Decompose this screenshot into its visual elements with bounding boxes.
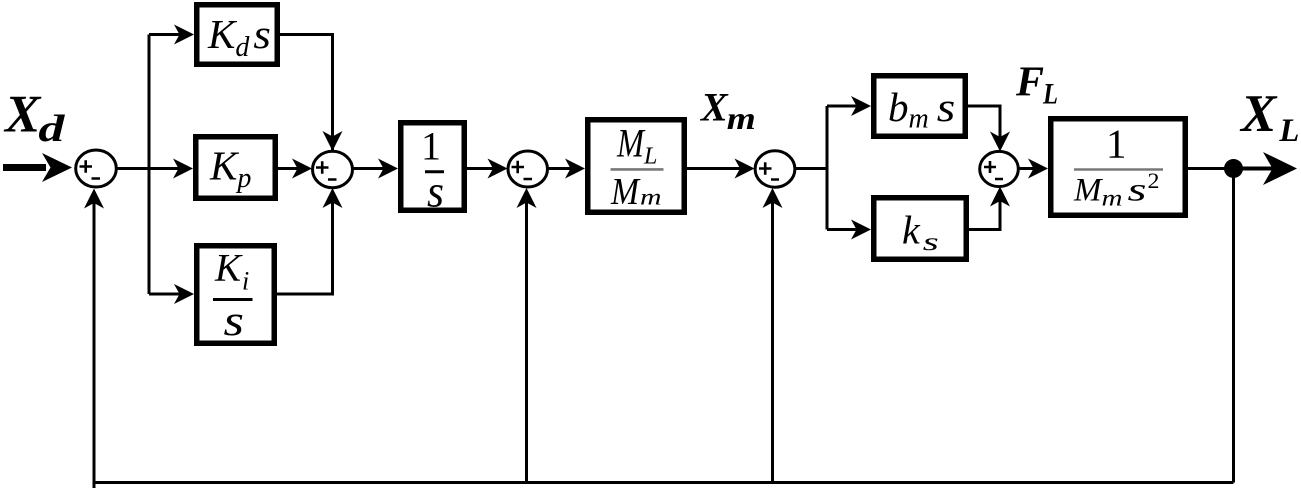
svg-text:m: m [640, 185, 662, 210]
arrowhead into S2 left [292, 159, 312, 179]
block Kd s [197, 5, 278, 65]
svg-text:s: s [427, 167, 444, 217]
wire feedback bottom horizontal [94, 481, 1234, 484]
wire ML/Mm output to S4 (node Xm) [687, 167, 741, 170]
wire input to S1 (thick input shaft) [3, 164, 46, 171]
svg-text:s: s [224, 298, 245, 345]
arrowhead up into S3 bottom [517, 188, 537, 208]
wire 1/s to S3 [467, 167, 494, 170]
arrowhead into Kp [173, 159, 193, 179]
arrowhead up into S4 bottom [763, 188, 783, 208]
arrowhead into Kd s [174, 25, 194, 45]
wire S2 to 1/s [353, 167, 386, 170]
wire feedback vertical up to S3 [525, 200, 528, 483]
block ks [874, 198, 967, 260]
arrowhead into bm s [851, 96, 871, 116]
arrowhead up into S5 bottom [990, 187, 1010, 207]
arrowhead into 1/s [378, 159, 398, 179]
arrowhead into ML/Mm [565, 159, 585, 179]
arrowhead into ks [851, 220, 871, 240]
wire Kd s output to S2 top [280, 35, 333, 154]
wire bm s output to S5 top [968, 106, 1000, 138]
wire output node to XL arrow (thick shaft) [1234, 167, 1276, 171]
block Kp [196, 137, 276, 199]
input arrowhead into S1 [42, 153, 72, 182]
output arrowhead XL [1263, 152, 1297, 185]
svg-text:L: L [643, 144, 657, 170]
wire Kp output to S2 [278, 167, 298, 170]
svg-text:M: M [610, 171, 641, 213]
wire Ki/s output to S2 bottom [277, 192, 333, 294]
wire 1/Mms2 output to node [1188, 167, 1234, 170]
arrowhead into Ki/s [174, 284, 194, 304]
arrowhead down into S5 top [990, 132, 1010, 152]
wire branch to bm s [827, 105, 858, 108]
wire S1 to Kp [116, 167, 180, 170]
summing junction S1 [76, 150, 117, 187]
wire S3 to ML/Mm [548, 167, 573, 170]
block bm s [874, 76, 966, 137]
svg-text:1: 1 [1106, 121, 1127, 167]
wire branch to Kd s [149, 33, 180, 36]
summing junction S3 [508, 151, 548, 187]
arrowhead into S3 left [488, 159, 508, 179]
arrowhead into S4 left [735, 159, 755, 179]
wire ks output to S5 bottom [969, 200, 1000, 230]
block Ki/s [197, 246, 275, 345]
output node dot [1224, 159, 1243, 178]
summing junction S5 [980, 151, 1019, 186]
summing junction S2 [313, 151, 353, 187]
wire S4 to branch point [795, 167, 827, 170]
wire feedback right vertical down from node [1232, 169, 1235, 483]
wire feedback left vertical up to S1 [93, 200, 96, 488]
block 1/s [401, 123, 465, 217]
block ML/Mm [588, 120, 685, 213]
wire branch vertical (bm s row to ks row) [826, 106, 829, 230]
arrowhead into 1/Mms2 [1028, 159, 1048, 179]
wire branch to ks [827, 228, 858, 231]
wire feedback vertical up to S4 [771, 200, 774, 483]
block 1/Mms2 [1051, 119, 1186, 216]
arrowhead up into S2 bottom [323, 188, 343, 208]
wire branch to Ki/s [149, 293, 180, 296]
wire S5 to 1/Mms2 [1019, 167, 1036, 170]
wire branch vertical (Kd row to Ki row) [148, 35, 151, 295]
arrowhead down into S2 top [323, 131, 343, 151]
arrowhead up into S1 bottom [84, 189, 104, 209]
svg-text:M: M [616, 121, 646, 166]
svg-text:1: 1 [421, 124, 441, 169]
summing junction S4 [755, 151, 795, 187]
